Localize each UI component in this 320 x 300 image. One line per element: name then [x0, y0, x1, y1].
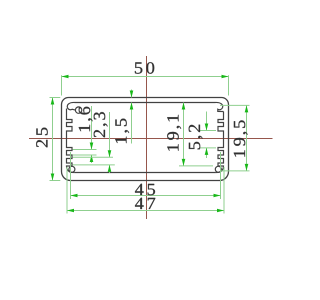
dimension 1,5 text — [115, 119, 129, 143]
dimension 19,5 extension lines — [220, 104, 250, 106]
centerline vertical — [146, 56, 148, 219]
dimension 1,6 arrows — [90, 143, 94, 150]
dimension 19,1 text — [167, 115, 181, 151]
inner cavity ceiling — [75, 102, 215, 104]
dimension 45 text — [135, 184, 155, 195]
dimension 1,6 line — [91, 106, 93, 150]
dimension 47 line — [67, 210, 224, 212]
dimension 2,3 extension lines — [73, 156, 114, 158]
dimension 19,1 extension line bottom — [179, 165, 213, 167]
left wall serrated face — [67, 109, 73, 167]
screw port ring bottom-left — [69, 166, 75, 172]
dimension 25 line — [52, 98, 54, 181]
dimension 47 extension lines — [66, 167, 68, 214]
right wall serrated face — [218, 112, 224, 167]
dimension 19,5 line — [246, 105, 248, 170]
dimension 1,5 line — [131, 90, 133, 98]
dimension 45 line — [71, 195, 221, 197]
screw port ring bottom-right — [215, 166, 221, 172]
dimension 2,3 arrows — [108, 150, 112, 157]
dimension 25 text — [36, 128, 48, 148]
dimension 1,6 extension lines — [73, 149, 97, 151]
dimension 25 extension lines — [50, 97, 61, 99]
dimension 45 extension lines — [70, 152, 72, 199]
dimension 45 arrows — [71, 194, 78, 198]
outer profile — [62, 97, 229, 180]
dimension 50 extension lines — [61, 75, 63, 95]
dimension 25 arrows — [51, 98, 55, 105]
right wall bottom inner fillet — [215, 166, 223, 172]
dimension 2,3 line — [109, 112, 111, 157]
dimension 50 arrows — [62, 75, 69, 79]
dimension 50 text — [135, 62, 154, 73]
dimension 5,2 text — [189, 125, 203, 150]
dimension 2,3 text — [94, 112, 108, 137]
dimension 47 arrows — [67, 209, 74, 213]
inner cavity floor — [75, 172, 216, 174]
dimension 5,2 line — [206, 112, 208, 131]
screw port ring top-left — [75, 107, 81, 113]
left wall bottom inner fillet — [67, 166, 75, 172]
dimension 1,6 text — [79, 107, 93, 132]
dimension 1,5 arrows — [130, 91, 134, 98]
dimension 19,1 line — [183, 103, 185, 166]
dimension 19,5 arrows — [245, 105, 249, 112]
screw boss hook top-left — [67, 102, 75, 110]
centerline horizontal — [29, 138, 273, 140]
dimension 50 line — [62, 76, 229, 78]
dimension 5,2 extension lines — [200, 130, 217, 132]
dimension 19,1 arrows — [182, 103, 186, 110]
dimension 19,5 text — [234, 120, 248, 156]
dimension 47 text — [135, 198, 155, 209]
screw boss hook top-right — [215, 102, 224, 111]
dimension 5,2 arrows — [205, 124, 209, 131]
